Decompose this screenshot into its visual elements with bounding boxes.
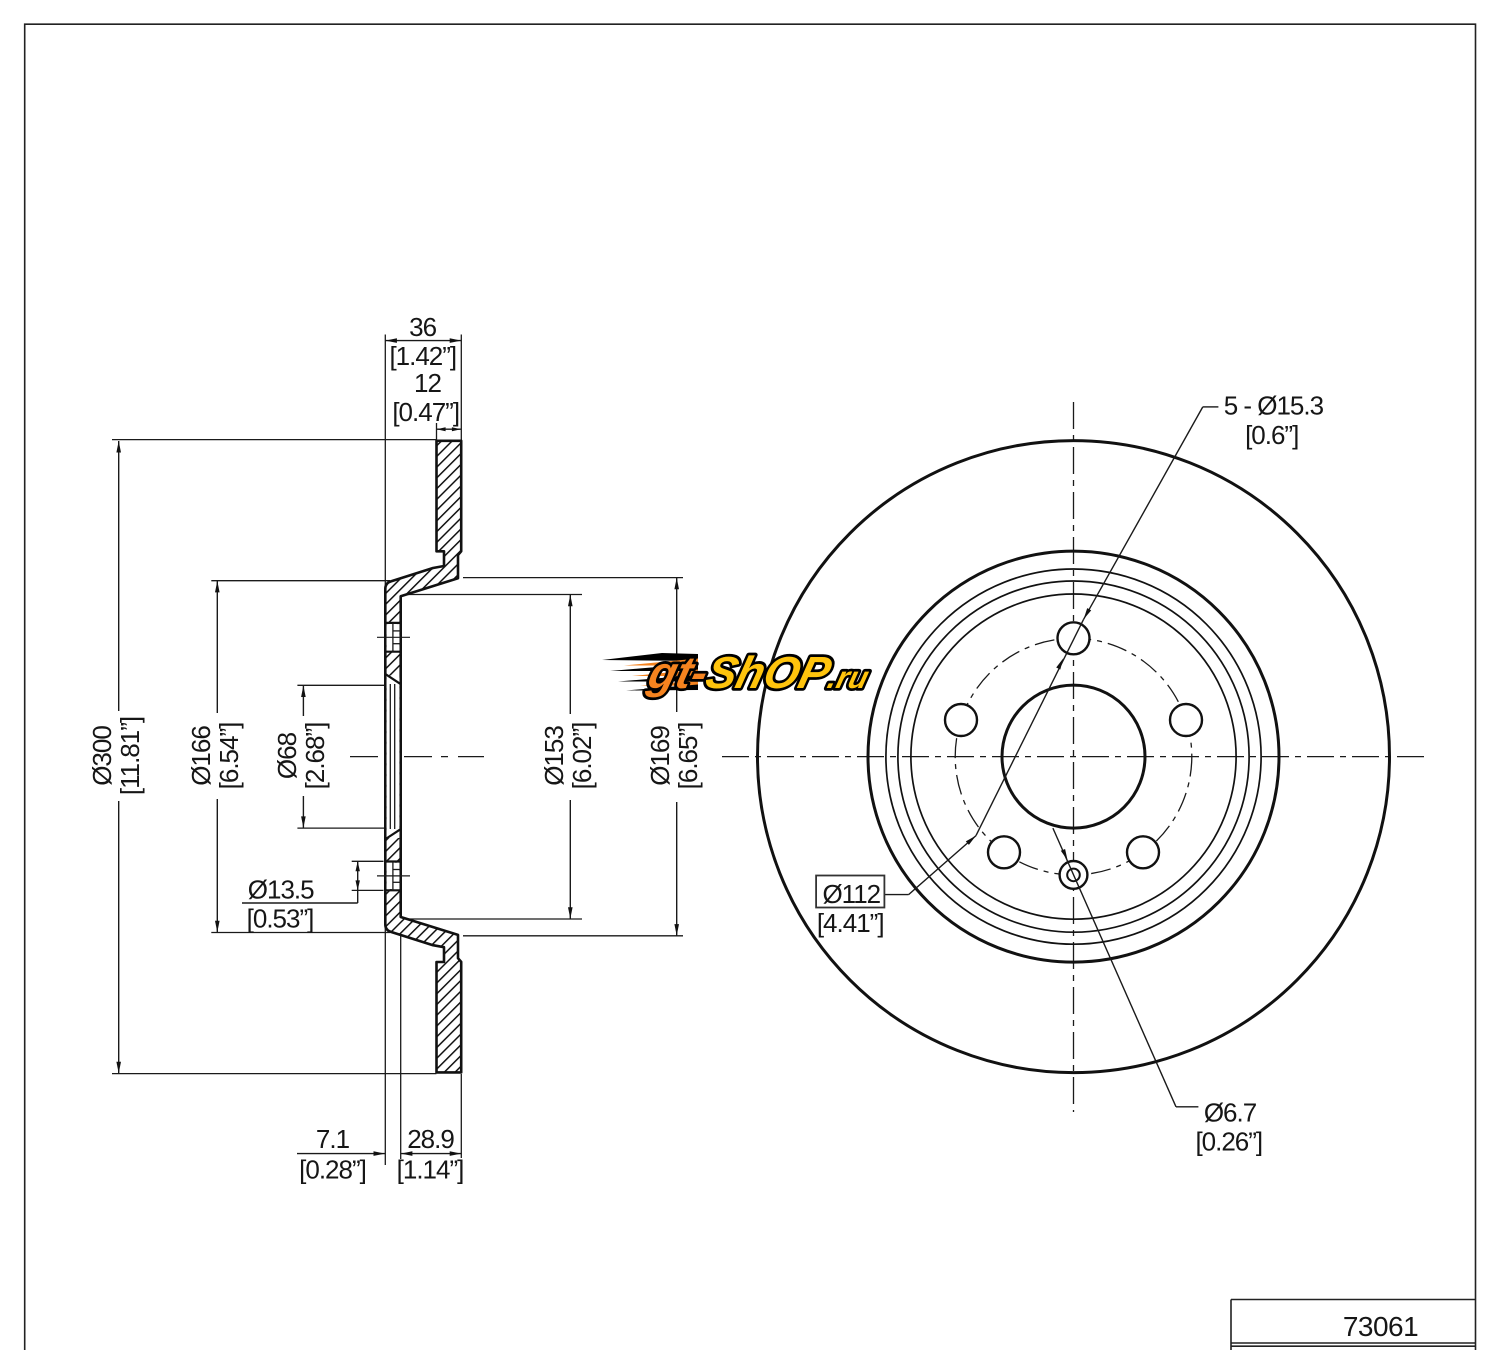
svg-text:[11.81”]: [11.81”] bbox=[115, 717, 145, 795]
svg-text:Ø13.5: Ø13.5 bbox=[248, 875, 314, 905]
svg-text:[1.42”]: [1.42”] bbox=[389, 341, 456, 371]
svg-text:[0.28”]: [0.28”] bbox=[299, 1155, 366, 1185]
svg-text:Ø166: Ø166 bbox=[186, 726, 216, 786]
svg-text:73061: 73061 bbox=[1343, 1311, 1418, 1342]
svg-text:[1.14”]: [1.14”] bbox=[397, 1155, 464, 1185]
svg-text:36: 36 bbox=[409, 312, 436, 342]
svg-text:[0.26”]: [0.26”] bbox=[1195, 1127, 1262, 1157]
svg-text:Ø300: Ø300 bbox=[87, 726, 117, 786]
svg-text:7.1: 7.1 bbox=[316, 1124, 350, 1154]
svg-text:Ø6.7: Ø6.7 bbox=[1204, 1098, 1257, 1128]
svg-text:Ø68: Ø68 bbox=[272, 732, 302, 779]
svg-text:[6.54”]: [6.54”] bbox=[214, 723, 244, 790]
svg-text:[6.65”]: [6.65”] bbox=[673, 723, 703, 790]
svg-text:[0.6”]: [0.6”] bbox=[1245, 420, 1298, 450]
svg-text:12: 12 bbox=[414, 368, 441, 398]
svg-text:[4.41”]: [4.41”] bbox=[817, 908, 884, 938]
svg-text:28.9: 28.9 bbox=[407, 1124, 454, 1154]
svg-text:5 - Ø15.3: 5 - Ø15.3 bbox=[1224, 390, 1324, 420]
svg-text:[6.02”]: [6.02”] bbox=[567, 723, 597, 790]
svg-text:Ø112: Ø112 bbox=[822, 879, 880, 909]
svg-text:[0.53”]: [0.53”] bbox=[247, 904, 314, 934]
svg-text:Ø169: Ø169 bbox=[645, 726, 675, 786]
svg-text:[0.47”]: [0.47”] bbox=[392, 397, 459, 427]
svg-text:[2.68”]: [2.68”] bbox=[300, 723, 330, 790]
svg-text:Ø153: Ø153 bbox=[539, 726, 569, 786]
